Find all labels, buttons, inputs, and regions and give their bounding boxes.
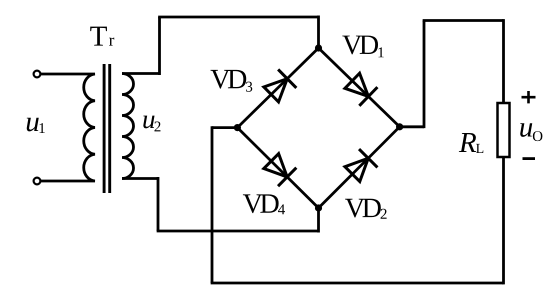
wire: secondary top riser <box>158 17 161 75</box>
wire: secondary bottom lead <box>122 177 158 180</box>
wire: bottom AC run <box>157 230 319 233</box>
transformer Tr secondary winding <box>122 74 134 179</box>
wire: top AC run <box>158 16 318 19</box>
input terminal top (open circle) <box>34 71 41 78</box>
wire: drop to bridge top node <box>317 16 320 49</box>
junction dot: bridge bottom node <box>315 204 322 211</box>
label VD3 <box>211 70 253 92</box>
wire: bridge edge bottom-to-right (VD2 branch) <box>319 127 400 208</box>
wire: load bottom riser <box>502 157 505 284</box>
wire: right riser <box>423 21 426 129</box>
wire: left node lead <box>212 126 237 129</box>
wire: right node lead <box>400 125 424 128</box>
plus sign (output polarity +) <box>522 91 536 103</box>
wire: secondary bottom drop <box>157 177 160 231</box>
transformer core (two bars) <box>104 64 110 193</box>
label Tr <box>90 27 114 46</box>
minus sign (output polarity -) <box>523 157 536 160</box>
label u1 <box>27 118 45 133</box>
wire: load top lead <box>502 19 505 103</box>
wire: riser to bridge bottom node <box>317 208 320 233</box>
wire: left rail drop <box>211 126 214 283</box>
wire: secondary top lead <box>122 72 160 75</box>
wire: bridge edge left-to-top (VD3 branch) <box>237 48 318 128</box>
junction dot: bridge top node <box>315 44 322 51</box>
wire: bottom DC run <box>211 282 504 285</box>
wire: bridge edge left-to-bottom (VD4 branch) <box>237 128 318 208</box>
junction dot: bridge left node <box>234 124 241 131</box>
label u2 <box>143 116 160 132</box>
diode VD4 symbol <box>262 152 296 186</box>
junction dot: bridge right node <box>396 123 403 130</box>
diode VD1 symbol <box>343 71 377 105</box>
label uO <box>520 123 542 141</box>
label VD1 <box>342 36 383 58</box>
transformer Tr primary winding with lead wires <box>41 74 95 181</box>
diode VD3 symbol <box>262 69 296 103</box>
resistor RL body <box>498 103 510 157</box>
input terminal bottom (open circle) <box>34 178 41 185</box>
wire: bridge edge top-to-right (VD1 branch) <box>319 48 400 127</box>
label VD4 <box>243 194 285 214</box>
label VD2 <box>345 199 387 219</box>
label RL <box>459 133 483 153</box>
diode VD2 symbol <box>343 149 377 183</box>
wire: top DC run <box>423 19 504 22</box>
